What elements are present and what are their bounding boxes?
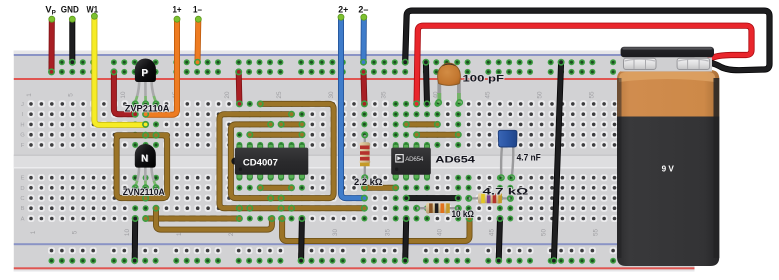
svg-text:50: 50 bbox=[541, 229, 548, 237]
wire black C37 to C42 bbox=[404, 195, 461, 200]
wire brown A12 to A21 bbox=[143, 216, 242, 221]
svg-text:35: 35 bbox=[384, 229, 391, 237]
resistor R3 10k (B38-B42) bbox=[414, 203, 461, 214]
wire brown D33 to D36 bbox=[362, 185, 399, 190]
svg-text:1+: 1+ bbox=[173, 5, 182, 15]
wire black A11 to bottom rail bbox=[132, 216, 138, 264]
capacitor C2 4.7 nF bbox=[498, 130, 517, 180]
wire W1 yellow bbox=[91, 13, 148, 127]
svg-text:5: 5 bbox=[72, 230, 79, 234]
svg-text:100 pF: 100 pF bbox=[463, 74, 505, 84]
svg-text:C: C bbox=[20, 196, 24, 202]
wire V_P red bbox=[49, 16, 55, 74]
svg-text:5: 5 bbox=[68, 93, 75, 97]
battery BT1 9V bbox=[617, 47, 719, 266]
svg-text:E: E bbox=[21, 176, 25, 182]
label C1 100 pF bbox=[463, 74, 505, 84]
label W1 net bbox=[87, 5, 99, 15]
label 2+ net bbox=[338, 5, 349, 15]
svg-text:G: G bbox=[20, 133, 25, 139]
label R1 2.2 kOhm bbox=[354, 177, 383, 187]
svg-text:30: 30 bbox=[328, 91, 335, 99]
svg-text:10: 10 bbox=[120, 91, 127, 99]
svg-text:GND: GND bbox=[61, 5, 79, 15]
label 1+ net bbox=[173, 5, 182, 15]
svg-text:F: F bbox=[21, 143, 25, 149]
svg-text:9 V: 9 V bbox=[662, 164, 675, 173]
wire brown H25 to H27 bbox=[278, 122, 304, 127]
wire black -rail to J39 bbox=[423, 60, 430, 107]
wire red +rail to I11 bbox=[111, 69, 138, 117]
svg-text:J: J bbox=[21, 102, 24, 108]
wire black A27 to bottom rail bbox=[298, 216, 304, 264]
svg-text:H: H bbox=[20, 122, 24, 128]
transistor Q2 ZVN2110A bbox=[133, 144, 159, 191]
wire brown B13 to A24 bbox=[153, 206, 274, 230]
svg-text:50: 50 bbox=[537, 91, 544, 99]
wire black A37 to bottom rail bbox=[403, 216, 409, 264]
svg-text:45: 45 bbox=[489, 229, 496, 237]
svg-text:ZVP2110A: ZVP2110A bbox=[125, 104, 170, 114]
transistor Q1 ZVP2110A bbox=[133, 59, 159, 107]
resistor R1 2.2k (G33-E33) bbox=[359, 132, 370, 180]
label Q1 ZVP2110A bbox=[125, 104, 170, 114]
wire battery negative black bbox=[403, 11, 770, 71]
wire brown rectangle around Q2 (G12/C12) bbox=[117, 133, 168, 201]
svg-text:D: D bbox=[20, 186, 24, 192]
svg-text:2+: 2+ bbox=[338, 5, 349, 15]
svg-text:AD654: AD654 bbox=[435, 155, 476, 165]
wire 1- orange bbox=[195, 16, 202, 65]
svg-text:25: 25 bbox=[276, 91, 283, 99]
IC U1 CD4007 (dual complementary MOSFET IC) bbox=[231, 144, 308, 179]
svg-text:45: 45 bbox=[485, 91, 492, 99]
breadboard bbox=[14, 51, 695, 272]
label R3 10 kOhm bbox=[452, 209, 475, 219]
wire brown loop J23 to H24 (around CD4007) bbox=[231, 101, 334, 201]
capacitor C1 100 pF bbox=[436, 63, 462, 105]
wire 1+ orange bbox=[143, 16, 180, 117]
svg-text:1: 1 bbox=[26, 93, 33, 97]
label GND net bbox=[61, 5, 79, 15]
wire 2+ blue bbox=[338, 14, 367, 201]
wire black -rail to bottom rail bbox=[551, 60, 564, 264]
wire red +rail to J21 bbox=[236, 69, 242, 106]
wire GND black bbox=[69, 16, 75, 65]
svg-text:4.7 nF: 4.7 nF bbox=[517, 153, 541, 163]
svg-text:30: 30 bbox=[332, 229, 339, 237]
resistor R2 4.7k (C43-C47) bbox=[466, 193, 513, 204]
label C2 4.7 nF bbox=[517, 153, 541, 163]
svg-text:AD654: AD654 bbox=[405, 156, 424, 163]
label 1- net bbox=[193, 5, 202, 15]
wire brown G38 to G42 bbox=[414, 132, 461, 137]
wire brown A25 to A43 bbox=[279, 216, 472, 241]
wire brown G22 to G27 bbox=[247, 132, 305, 137]
wire brown loop I26 to B33 bbox=[220, 112, 368, 211]
wire brown D23 to D26 bbox=[258, 185, 295, 190]
svg-text:10: 10 bbox=[124, 229, 131, 237]
svg-text:1: 1 bbox=[30, 230, 37, 234]
svg-text:ZVN2110A: ZVN2110A bbox=[123, 187, 165, 197]
wire 2- blue bbox=[361, 14, 367, 65]
svg-text:A: A bbox=[21, 217, 25, 223]
wire red +rail to J33 bbox=[361, 69, 367, 106]
svg-text:4.7 kΩ: 4.7 kΩ bbox=[483, 187, 530, 197]
svg-text:2–: 2– bbox=[358, 5, 368, 15]
svg-text:55: 55 bbox=[589, 91, 596, 99]
label R2 4.7 kOhm bbox=[483, 187, 530, 197]
wire black A46 to bottom rail bbox=[496, 216, 503, 264]
svg-text:10 kΩ: 10 kΩ bbox=[452, 209, 475, 219]
label U2 AD654 bbox=[435, 155, 476, 165]
wire brown H37 to H40 bbox=[404, 122, 441, 127]
svg-text:1–: 1– bbox=[193, 5, 202, 15]
svg-text:2.2 kΩ: 2.2 kΩ bbox=[354, 177, 383, 187]
label Q2 ZVN2110A bbox=[123, 187, 165, 197]
svg-text:B: B bbox=[21, 206, 25, 212]
label 2- net bbox=[358, 5, 368, 15]
svg-text:40: 40 bbox=[436, 229, 443, 237]
label V_P net bbox=[45, 5, 55, 17]
svg-text:55: 55 bbox=[593, 229, 600, 237]
svg-text:CD4007: CD4007 bbox=[243, 158, 278, 169]
svg-text:W1: W1 bbox=[87, 5, 99, 15]
svg-text:35: 35 bbox=[380, 91, 387, 99]
wire battery positive red bbox=[414, 26, 752, 107]
IC U2 AD654 (V-to-F converter IC) bbox=[391, 144, 431, 179]
svg-text:20: 20 bbox=[224, 91, 231, 99]
svg-text:N: N bbox=[141, 153, 148, 164]
svg-text:P: P bbox=[141, 68, 148, 79]
